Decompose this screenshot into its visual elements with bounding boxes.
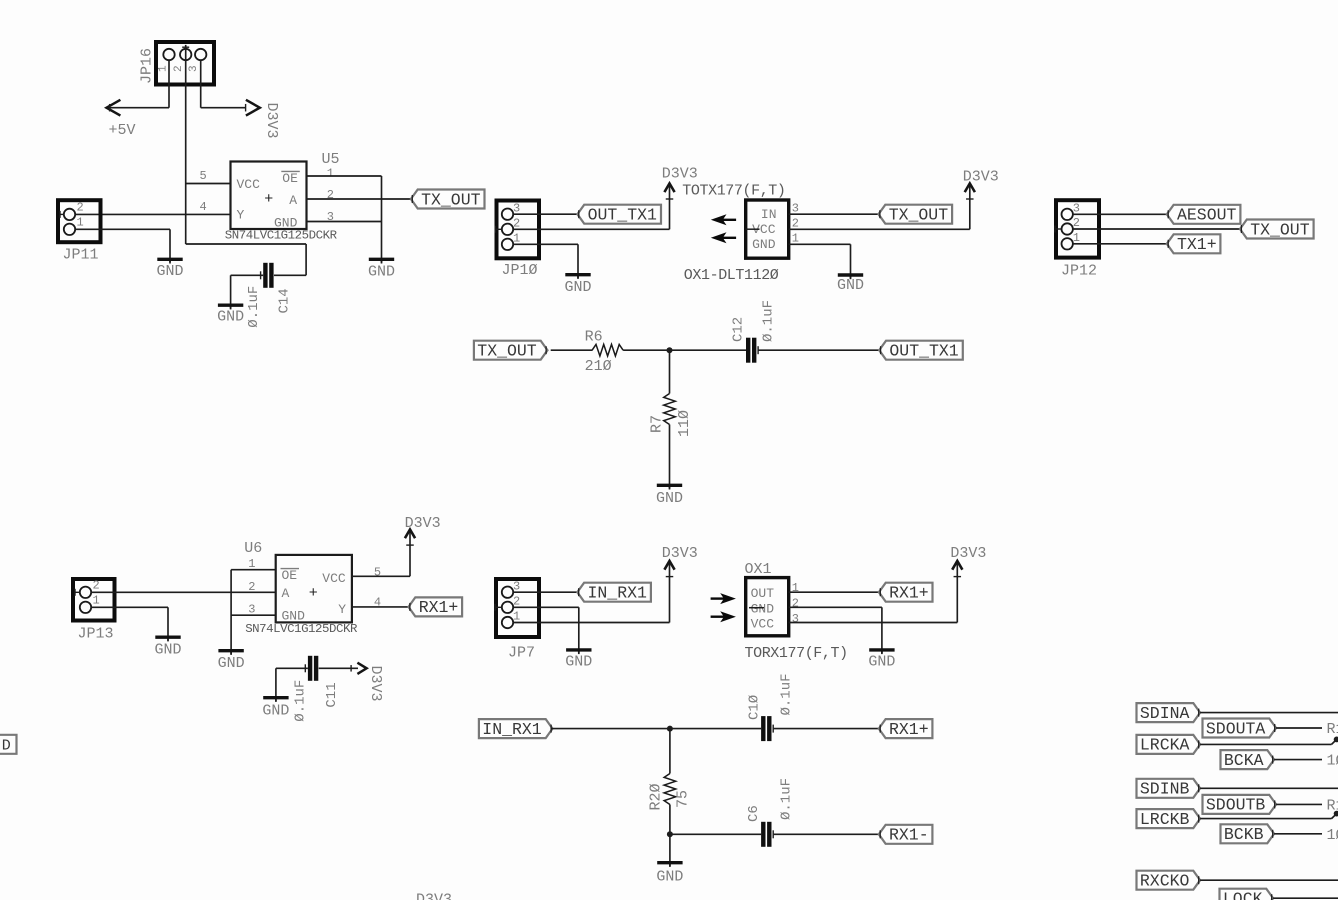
wire SDOUTB xyxy=(1276,803,1322,805)
net flag LOCK xyxy=(1220,889,1274,900)
svg-text:LRCKA: LRCKA xyxy=(1140,736,1190,755)
wire C14 left to GND xyxy=(231,274,264,276)
net flag OUT_TX1 (attenuator output) xyxy=(879,341,963,360)
wire TORX OUT to RX1+ flag xyxy=(789,591,879,593)
ground GND (R7) xyxy=(669,485,671,489)
wire U6 tie down to GND xyxy=(230,570,232,654)
svg-text:3: 3 xyxy=(1073,202,1080,216)
svg-text:GND: GND xyxy=(154,641,181,658)
wire TORX GND to ground xyxy=(789,606,882,608)
wire U5 GND pin to tie xyxy=(307,221,382,223)
net flag TX1+ xyxy=(1167,234,1221,253)
wire OE/GND tie down xyxy=(381,176,383,263)
wire C11 left to GND xyxy=(276,667,308,669)
wire C10 to RX1+ flag xyxy=(774,728,879,730)
svg-text:R7: R7 xyxy=(649,415,666,433)
net flag RX1- xyxy=(879,825,933,844)
svg-text:SN74LVC1G125DCKR: SN74LVC1G125DCKR xyxy=(245,622,358,636)
net flag LRCKB xyxy=(1137,809,1201,828)
svg-text:SN74LVC1G125DCKR: SN74LVC1G125DCKR xyxy=(225,229,338,243)
svg-text:11Ø: 11Ø xyxy=(676,410,693,437)
svg-text:2: 2 xyxy=(327,188,334,202)
svg-text:SDOUTB: SDOUTB xyxy=(1206,796,1266,815)
svg-text:C14: C14 xyxy=(277,288,293,313)
wire JP11 pin2 to U5 Y xyxy=(75,213,231,215)
net flag TX_OUT (attenuator input) xyxy=(474,341,548,360)
svg-text:TORX177(F,T): TORX177(F,T) xyxy=(745,645,848,662)
wire TOTX GND pin to ground xyxy=(789,243,851,245)
capacitor C10 0.1uF xyxy=(761,716,765,741)
svg-text:1: 1 xyxy=(513,610,520,624)
svg-text:2: 2 xyxy=(93,579,100,593)
connector JP11 xyxy=(58,200,101,242)
svg-text:+5V: +5V xyxy=(109,122,136,139)
svg-text:3: 3 xyxy=(792,612,799,626)
net flag OUT_TX1 xyxy=(577,205,661,224)
net flag BCKB xyxy=(1221,824,1275,843)
svg-text:2: 2 xyxy=(513,217,520,231)
svg-text:C1Ø: C1Ø xyxy=(747,695,763,720)
svg-text:4: 4 xyxy=(200,200,207,214)
svg-text:TX1+: TX1+ xyxy=(1177,235,1217,254)
resistor R20 75 xyxy=(664,774,676,805)
svg-text:LOCK: LOCK xyxy=(1223,890,1263,900)
svg-text:IN_RX1: IN_RX1 xyxy=(588,584,648,603)
net flag LRCKA xyxy=(1137,735,1201,754)
svg-text:OUT_TX1: OUT_TX1 xyxy=(588,206,657,225)
svg-text:2: 2 xyxy=(792,597,799,611)
svg-text:1: 1 xyxy=(327,166,334,180)
svg-text:1: 1 xyxy=(513,232,520,246)
wire C6 to RX1- flag xyxy=(774,833,879,835)
svg-text:2: 2 xyxy=(77,201,84,215)
svg-text:GND: GND xyxy=(656,490,683,507)
svg-text:D3V3: D3V3 xyxy=(963,169,999,186)
wire JP10 pin2 to D3V3 xyxy=(513,228,669,230)
capacitor C6 0.1uF xyxy=(761,822,765,847)
svg-text:1: 1 xyxy=(792,232,799,246)
wire U5 OE to GND tie xyxy=(307,175,382,177)
svg-text:OE: OE xyxy=(282,568,298,583)
connector JP13 xyxy=(73,579,115,621)
supply D3V3 (TORX) xyxy=(952,561,962,570)
svg-text:JP16: JP16 xyxy=(139,48,156,84)
supply D3V3 (JP7) xyxy=(664,561,674,570)
wire junction to C10 xyxy=(670,728,761,730)
connector JP12 xyxy=(1056,200,1099,257)
ground GND (TORX) xyxy=(881,650,883,654)
wire JP7 pin3 to IN_RX1 flag xyxy=(513,591,577,593)
svg-text:AESOUT: AESOUT xyxy=(1177,206,1237,225)
svg-text:Ø.1uF: Ø.1uF xyxy=(779,778,795,820)
svg-text:1: 1 xyxy=(93,594,100,608)
svg-text:JP12: JP12 xyxy=(1061,263,1097,280)
svg-text:GND: GND xyxy=(837,277,864,294)
svg-text:TX_OUT: TX_OUT xyxy=(1250,220,1310,239)
ground GND (JP11) xyxy=(169,259,171,263)
wire JP10 pin3 to OUT_TX1 flag xyxy=(513,213,577,215)
wire U6 OE tie xyxy=(231,569,276,571)
ground GND (C11) xyxy=(275,698,277,702)
wire LOCK xyxy=(1273,897,1338,899)
wire VCC net to C14 xyxy=(186,243,306,245)
net flag fragment (left edge) xyxy=(0,735,17,754)
svg-text:JP1Ø: JP1Ø xyxy=(502,262,538,279)
net flag IN_RX1 (coupling input) xyxy=(479,719,553,738)
wire VCC stub to U5 xyxy=(186,183,231,185)
svg-text:RX1-: RX1- xyxy=(889,826,929,845)
ground GND (JP13) xyxy=(167,637,169,641)
svg-text:RX1+: RX1+ xyxy=(889,720,929,739)
+5V supply arrow xyxy=(107,100,121,116)
svg-text:Ø.1uF: Ø.1uF xyxy=(293,680,309,722)
wire JP16 pin1 to +5V xyxy=(168,60,170,107)
wire JP16 pin3 to D3V3 xyxy=(200,60,202,107)
svg-text:D3V3: D3V3 xyxy=(416,892,452,900)
svg-text:Y: Y xyxy=(338,602,346,617)
svg-text:D3V3: D3V3 xyxy=(662,545,698,562)
svg-text:3: 3 xyxy=(188,65,200,72)
svg-text:IN: IN xyxy=(761,207,777,222)
capacitor C12 0.1uF xyxy=(746,338,750,363)
supply D3V3 (U6) xyxy=(405,530,415,539)
capacitor C14 0.1uF xyxy=(263,263,267,288)
svg-text:VCC: VCC xyxy=(237,177,261,192)
wire R7 to GND xyxy=(669,425,671,489)
op-amp buffer U5 SN74LVC1G125DCKR xyxy=(231,162,307,230)
net flag RX1+ (U6 out) xyxy=(409,597,463,616)
wire SDOUTA xyxy=(1276,727,1322,729)
wire SDINA xyxy=(1200,712,1338,714)
capacitor C11 0.1uF xyxy=(308,656,312,681)
wire JP7 pin1 to D3V3 xyxy=(513,622,669,624)
svg-text:TX_OUT: TX_OUT xyxy=(421,190,481,209)
wire junction down to R20 xyxy=(669,729,671,774)
svg-text:SDINB: SDINB xyxy=(1140,780,1190,799)
svg-text:GND: GND xyxy=(217,308,244,325)
wire JP16 pin2 down to U5 VCC net xyxy=(185,45,187,244)
svg-text:TOTX177(F,T): TOTX177(F,T) xyxy=(682,183,785,200)
wire junction to C12 xyxy=(670,349,747,351)
svg-text:1: 1 xyxy=(1073,231,1080,245)
svg-text:RXCKO: RXCKO xyxy=(1140,872,1190,891)
svg-text:GND: GND xyxy=(656,868,683,885)
wire RXCKO xyxy=(1200,879,1338,881)
svg-text:D3V3: D3V3 xyxy=(367,666,384,702)
resistor R6 210 xyxy=(592,344,623,356)
svg-text:D3V3: D3V3 xyxy=(405,515,441,532)
net flag SDOUTA xyxy=(1203,719,1277,738)
wire BCKB xyxy=(1274,833,1322,835)
svg-text:3: 3 xyxy=(513,201,520,215)
svg-text:A: A xyxy=(289,193,297,208)
svg-text:TX_OUT: TX_OUT xyxy=(477,342,537,361)
net flag IN_RX1 xyxy=(577,583,651,602)
wire JP13 pin1 to GND xyxy=(91,606,168,608)
wire TORX VCC to D3V3 xyxy=(789,622,958,624)
optical input arrow 1 xyxy=(720,593,736,604)
svg-text:D3V3: D3V3 xyxy=(263,103,280,139)
svg-text:D3V3: D3V3 xyxy=(950,545,986,562)
wire JP7 pin2 to GND xyxy=(513,606,579,608)
svg-text:Ø.1uF: Ø.1uF xyxy=(246,286,262,328)
svg-text:5: 5 xyxy=(200,169,207,183)
wire TOTX VCC to D3V3 xyxy=(789,228,970,230)
svg-text:GND: GND xyxy=(868,654,895,671)
svg-text:C6: C6 xyxy=(746,805,762,822)
svg-text:R2Ø: R2Ø xyxy=(647,783,664,810)
svg-text:+: + xyxy=(264,191,273,208)
svg-text:21Ø: 21Ø xyxy=(585,358,612,375)
wire lower junction to GND xyxy=(669,834,671,866)
svg-text:LRCKB: LRCKB xyxy=(1140,810,1190,829)
svg-text:SDINA: SDINA xyxy=(1140,704,1190,723)
svg-text:Ø.1uF: Ø.1uF xyxy=(761,300,777,342)
svg-text:2: 2 xyxy=(792,217,799,231)
svg-text:JP7: JP7 xyxy=(508,645,535,662)
net flag BCKA xyxy=(1221,750,1275,769)
optical emission arrow 1 xyxy=(711,214,727,225)
svg-text:BCKA: BCKA xyxy=(1224,751,1264,770)
svg-text:2: 2 xyxy=(1073,216,1080,230)
connector JP10 xyxy=(497,201,540,259)
svg-text:JP11: JP11 xyxy=(63,246,99,263)
svg-text:+: + xyxy=(309,585,318,602)
wire U6 Y to RX1+ flag xyxy=(352,606,409,608)
svg-text:Ø.1uF: Ø.1uF xyxy=(779,673,795,715)
net flag TX_OUT (to TOTX) xyxy=(879,205,953,224)
svg-text:1: 1 xyxy=(158,65,170,72)
wire C14 right to VCC net xyxy=(274,274,306,276)
svg-text:OUT: OUT xyxy=(751,586,775,601)
junction dot LRCKB xyxy=(1334,811,1338,817)
net flag AESOUT xyxy=(1167,205,1241,224)
svg-text:GND: GND xyxy=(752,237,776,252)
svg-text:TX_OUT: TX_OUT xyxy=(889,206,949,225)
svg-text:1Ø: 1Ø xyxy=(1327,827,1338,844)
wire IN_RX1 to junction xyxy=(551,728,670,730)
wire JP10 pin1 to GND xyxy=(513,243,578,245)
net flag SDOUTB xyxy=(1203,795,1277,814)
svg-text:C12: C12 xyxy=(731,317,747,342)
svg-text:D3V3: D3V3 xyxy=(662,166,698,183)
ground GND (R20) xyxy=(669,863,671,867)
svg-text:OX1-DLT112Ø: OX1-DLT112Ø xyxy=(684,267,779,284)
net flag TX_OUT (JP12) xyxy=(1240,220,1314,239)
svg-text:OX1: OX1 xyxy=(745,561,772,578)
svg-text:VCC: VCC xyxy=(322,571,346,586)
net flag RXCKO xyxy=(1137,871,1201,890)
ground GND (C14) xyxy=(230,305,232,309)
ground GND (U5) xyxy=(381,259,383,263)
connector JP7 xyxy=(496,579,539,637)
svg-text:5: 5 xyxy=(374,565,381,579)
svg-text:GND: GND xyxy=(262,702,289,719)
net flag SDINB xyxy=(1137,779,1201,798)
wire U6 VCC to D3V3 xyxy=(352,575,410,577)
svg-text:2: 2 xyxy=(173,65,185,72)
svg-text:75: 75 xyxy=(675,790,692,808)
ground GND (JP7) xyxy=(578,650,580,654)
wire JP11 pin1 to GND xyxy=(75,228,170,230)
wire JP13 pin2 to U6 A xyxy=(91,591,276,593)
junction node RX lower xyxy=(667,831,673,837)
svg-text:SDOUTA: SDOUTA xyxy=(1206,719,1266,738)
resistor R7 110 xyxy=(664,394,676,425)
svg-text:GND: GND xyxy=(751,601,775,616)
svg-text:1: 1 xyxy=(77,216,84,230)
ground GND (U6) xyxy=(230,651,232,655)
svg-text:Y: Y xyxy=(237,208,245,223)
svg-text:GND: GND xyxy=(368,263,395,280)
svg-text:C11: C11 xyxy=(324,682,340,707)
wire C11 right to D3V3 arrow xyxy=(319,667,358,669)
svg-text:GND: GND xyxy=(565,654,592,671)
svg-text:A: A xyxy=(282,586,290,601)
svg-text:JP13: JP13 xyxy=(78,626,114,643)
wire JP12 pin3 to AESOUT xyxy=(1073,213,1167,215)
supply D3V3 (TOTX) xyxy=(965,183,975,192)
svg-text:GND: GND xyxy=(218,655,245,672)
op-amp buffer U6 SN74LVC1G125DCKR xyxy=(276,555,352,623)
net flag TX_OUT (U5 output) xyxy=(411,190,485,209)
svg-text:RX1+: RX1+ xyxy=(419,598,459,617)
optical emission arrow 2 xyxy=(711,232,727,243)
svg-text:R1: R1 xyxy=(1327,721,1338,738)
svg-text:U6: U6 xyxy=(244,540,262,557)
svg-text:2: 2 xyxy=(248,580,255,594)
junction node xyxy=(667,347,673,353)
svg-text:IN_RX1: IN_RX1 xyxy=(482,720,542,739)
wire C12 to OUT_TX1 flag xyxy=(759,349,880,351)
svg-text:3: 3 xyxy=(513,579,520,593)
ground GND (JP10) xyxy=(577,275,579,279)
junction dot LRCKA xyxy=(1334,737,1338,743)
svg-text:VCC: VCC xyxy=(751,617,775,632)
wire LRCKA xyxy=(1200,743,1331,745)
net flag RX1+ (coupled) xyxy=(879,719,933,738)
wire SDINB xyxy=(1200,787,1338,789)
D3V3 supply arrow right xyxy=(246,100,260,116)
wire R20 to lower junction xyxy=(669,805,671,835)
wire JP12 pin1 to TX1+ xyxy=(1073,243,1167,245)
net flag SDINA xyxy=(1137,703,1201,722)
wire JP12 pin2 to TX_OUT xyxy=(1073,228,1240,230)
wire R6 to junction xyxy=(623,349,669,351)
ground GND (TOTX) xyxy=(850,275,852,279)
optical input arrow 2 xyxy=(720,611,736,622)
svg-text:R6: R6 xyxy=(585,329,603,346)
svg-text:OUT_TX1: OUT_TX1 xyxy=(889,342,958,361)
junction node RX xyxy=(667,726,673,732)
net flag RX1+ (TORX) xyxy=(879,583,933,602)
wire U6 GND pin tie xyxy=(231,614,276,616)
wire LRCKB xyxy=(1200,818,1331,820)
svg-text:BCKB: BCKB xyxy=(1224,825,1264,844)
svg-text:1Ø: 1Ø xyxy=(1327,753,1338,770)
svg-text:GND: GND xyxy=(564,279,591,296)
connector JP16 xyxy=(156,42,214,85)
svg-text:RX1+: RX1+ xyxy=(889,584,929,603)
supply D3V3 right arrow (C11) xyxy=(357,663,366,674)
wire junction down to R7 xyxy=(669,350,671,393)
wire TX_OUT to R6 xyxy=(551,349,593,351)
svg-text:GND: GND xyxy=(156,263,183,280)
svg-text:D: D xyxy=(2,738,11,755)
svg-text:2: 2 xyxy=(513,595,520,609)
wire TOTX IN to TX_OUT flag xyxy=(789,213,879,215)
supply D3V3 (JP10) xyxy=(664,183,674,192)
wire lower junction to C6 xyxy=(670,833,761,835)
wire BCKA xyxy=(1274,759,1322,761)
svg-text:OE: OE xyxy=(282,171,298,186)
wire U5 A to TX_OUT flag xyxy=(307,198,411,200)
